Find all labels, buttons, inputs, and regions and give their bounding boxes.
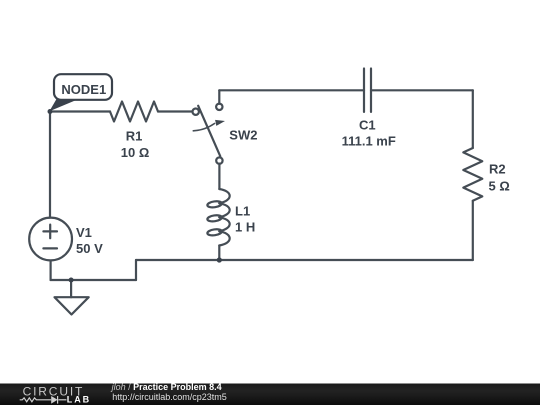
switch SW2 blade xyxy=(198,106,220,157)
svg-text:50 V: 50 V xyxy=(76,241,103,256)
svg-text:NODE1: NODE1 xyxy=(61,82,106,97)
ground triangle xyxy=(55,297,89,314)
wire right rail upper xyxy=(472,90,474,148)
wire bottom rail xyxy=(136,259,473,261)
voltage source V1 circle xyxy=(29,218,72,261)
wire node to R1 xyxy=(50,110,110,112)
wire L1 bottom lead xyxy=(218,246,220,261)
svg-text:V1: V1 xyxy=(76,225,92,240)
ground stem xyxy=(70,280,72,297)
footer logo resistor-diode glyph xyxy=(20,396,67,404)
svg-text:5 Ω: 5 Ω xyxy=(489,178,510,193)
capacitor C1 right plate xyxy=(370,69,372,112)
svg-text:R2: R2 xyxy=(489,162,506,177)
wire C1 to right rail xyxy=(371,89,473,91)
wire top rail to C1 xyxy=(219,89,364,91)
switch SW2 top throw terminal xyxy=(216,104,222,110)
V1 plus sign xyxy=(43,225,57,239)
switch SW2 actuation arc xyxy=(193,124,214,131)
wire V1 bottom lead xyxy=(49,260,51,280)
wire SW2 bottom throw to L1 xyxy=(218,164,220,189)
resistor R1 xyxy=(110,102,158,122)
svg-text:R1: R1 xyxy=(126,128,143,143)
inductor L1 coil xyxy=(207,189,230,246)
wire bottom step xyxy=(135,260,137,280)
NODE1 callout tail xyxy=(49,99,78,111)
svg-text:jloh / Practice Problem 8.4: jloh / Practice Problem 8.4 xyxy=(111,382,222,392)
resistor R2 xyxy=(463,148,482,201)
footer bar xyxy=(0,384,540,405)
footer logo diode triangle xyxy=(51,396,57,404)
svg-text:1 H: 1 H xyxy=(235,220,255,235)
SW2 arc arrowhead xyxy=(215,120,225,126)
wire SW2 top throw to top rail xyxy=(218,90,220,104)
wire bottom left rail xyxy=(51,279,136,281)
node A junction dot xyxy=(48,109,53,114)
NODE1 callout box xyxy=(54,74,112,100)
svg-text:L1: L1 xyxy=(235,203,250,218)
svg-text:http://circuitlab.com/cp23tm5: http://circuitlab.com/cp23tm5 xyxy=(112,392,227,402)
junction dot ground xyxy=(69,278,74,283)
wire right rail lower xyxy=(472,201,474,260)
junction dot L1 bottom xyxy=(217,257,222,262)
svg-text:C1: C1 xyxy=(359,118,376,133)
switch SW2 pole terminal xyxy=(193,109,199,115)
svg-text:LAB: LAB xyxy=(67,395,91,405)
svg-text:SW2: SW2 xyxy=(229,128,257,143)
wire R1 to SW2 pole xyxy=(158,110,193,112)
wire V1 top lead to node xyxy=(49,112,51,218)
capacitor C1 left plate xyxy=(363,69,365,112)
V1 minus sign xyxy=(43,247,57,249)
switch SW2 bottom throw terminal xyxy=(216,157,222,163)
svg-text:10 Ω: 10 Ω xyxy=(121,145,150,160)
svg-text:111.1 mF: 111.1 mF xyxy=(342,134,396,149)
